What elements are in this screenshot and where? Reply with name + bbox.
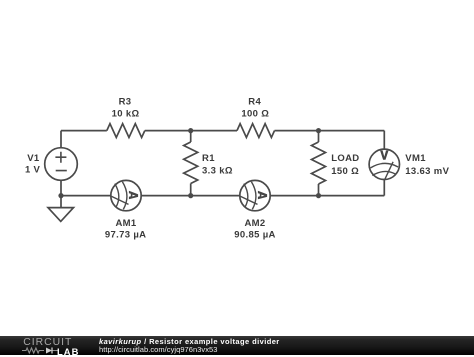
svg-text:R1: R1 — [202, 153, 215, 164]
svg-text:AM2: AM2 — [244, 218, 265, 229]
svg-text:VM1: VM1 — [405, 153, 426, 164]
svg-text:10 kΩ: 10 kΩ — [112, 108, 140, 119]
svg-text:R4: R4 — [248, 97, 261, 108]
svg-text:90.85 µA: 90.85 µA — [234, 229, 276, 240]
svg-text:R3: R3 — [119, 97, 132, 108]
svg-text:150 Ω: 150 Ω — [331, 166, 359, 177]
svg-text:3.3 kΩ: 3.3 kΩ — [202, 166, 233, 177]
svg-text:V1: V1 — [27, 153, 40, 164]
svg-text:1 V: 1 V — [25, 165, 41, 176]
svg-text:100 Ω: 100 Ω — [241, 108, 269, 119]
svg-text:97.73 µA: 97.73 µA — [105, 229, 147, 240]
svg-text:13.63 mV: 13.63 mV — [405, 166, 449, 177]
svg-text:AM1: AM1 — [115, 218, 136, 229]
svg-text:LOAD: LOAD — [331, 153, 359, 164]
